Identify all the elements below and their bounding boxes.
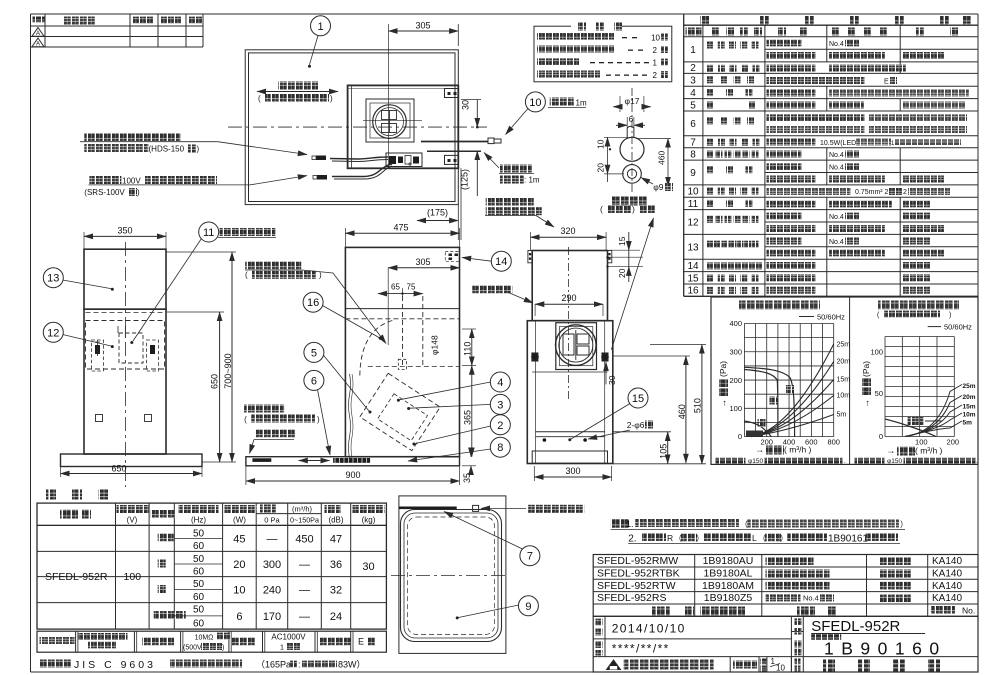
label phi9 hole <box>641 178 673 193</box>
balloon 10 power cord <box>506 92 587 135</box>
svg-text:10: 10 <box>233 585 245 597</box>
svg-text:45: 45 <box>233 533 245 545</box>
svg-text:83W）: 83W） <box>338 660 366 670</box>
svg-text:60: 60 <box>193 618 205 629</box>
svg-text:SFEDL-952RMW: SFEDL-952RMW <box>597 555 678 567</box>
svg-text:7: 7 <box>527 551 533 563</box>
svg-text:305: 305 <box>415 257 430 267</box>
motor spec strip <box>37 631 386 652</box>
svg-text:13: 13 <box>687 242 699 253</box>
svg-text:320: 320 <box>560 226 575 236</box>
line direction label 2 <box>244 405 320 425</box>
svg-text:365: 365 <box>463 410 473 425</box>
svg-text::: : <box>298 660 301 670</box>
svg-text:15: 15 <box>617 236 627 246</box>
svg-text:KA140: KA140 <box>932 569 962 580</box>
static pressure / airflow graph panel <box>711 297 978 464</box>
svg-text:1: 1 <box>771 657 776 666</box>
svg-text:12: 12 <box>687 218 699 229</box>
svg-text:2014/10/10: 2014/10/10 <box>612 622 686 636</box>
svg-text:290: 290 <box>561 293 576 303</box>
svg-text:10: 10 <box>651 34 660 43</box>
svg-text:): ) <box>317 415 320 424</box>
svg-text:3: 3 <box>497 399 503 411</box>
balloon 5 <box>304 342 372 413</box>
dim 15 right tab <box>607 232 643 257</box>
balloon 15 <box>568 388 648 441</box>
svg-text:900: 900 <box>345 470 360 480</box>
svg-text:15m: 15m <box>837 377 851 384</box>
parts list table <box>684 14 978 297</box>
corner bracket bottom-right <box>445 155 459 164</box>
svg-text:25m: 25m <box>837 342 851 349</box>
svg-text:450: 450 <box>295 533 313 545</box>
dim 65 75 <box>378 283 423 297</box>
svg-text:1: 1 <box>317 21 323 33</box>
svg-text:R: R <box>667 533 673 543</box>
dim 30 bolt <box>606 362 617 385</box>
left view base plate <box>61 454 203 467</box>
svg-text:φ17: φ17 <box>625 96 640 106</box>
svg-text:0~150Pa: 0~150Pa <box>290 515 319 524</box>
center view main rectangle <box>345 247 459 456</box>
svg-text:20: 20 <box>596 163 606 173</box>
keyhole big circle <box>620 137 644 161</box>
svg-text:200: 200 <box>947 438 960 447</box>
svg-text:(m³/h): (m³/h) <box>292 505 312 514</box>
svg-text:1: 1 <box>690 45 696 56</box>
svg-text:700~900: 700~900 <box>223 353 233 388</box>
svg-text:KA140: KA140 <box>932 556 962 567</box>
balloon 16 <box>303 292 382 340</box>
dim 20 right tab <box>606 256 643 282</box>
dim 700~900 <box>166 252 236 462</box>
svg-text:30: 30 <box>461 100 471 110</box>
logo mark label <box>250 430 297 454</box>
svg-text:(Pa): (Pa) <box>861 361 871 377</box>
svg-text:50: 50 <box>193 579 205 590</box>
svg-text:240: 240 <box>263 585 281 597</box>
svg-text:475: 475 <box>393 222 408 232</box>
svg-text:60: 60 <box>193 541 205 552</box>
svg-text:E: E <box>358 637 364 647</box>
svg-text:φ150: φ150 <box>748 458 763 465</box>
dim 110 <box>462 329 476 366</box>
svg-text:50: 50 <box>193 529 205 540</box>
base double arrow <box>299 460 330 462</box>
company logo and name <box>607 657 804 673</box>
dimension 105 <box>612 432 706 464</box>
svg-text:No.4: No.4 <box>829 239 844 246</box>
svg-text:2: 2 <box>497 420 503 432</box>
svg-text:47: 47 <box>330 533 342 545</box>
svg-text:1B9180Z5: 1B9180Z5 <box>704 592 753 604</box>
svg-text:30: 30 <box>607 375 617 385</box>
balloon 8 <box>408 437 510 461</box>
svg-text:）: ） <box>900 520 908 529</box>
svg-text:→: → <box>718 399 728 408</box>
center view inner dashed line2 <box>368 366 460 368</box>
svg-text:—: — <box>267 533 278 545</box>
svg-text:（165Pa: （165Pa <box>256 660 291 670</box>
svg-text:A: A <box>36 42 40 48</box>
bottom view centerline <box>391 574 508 576</box>
svg-text:A: A <box>36 31 40 37</box>
svg-text:SFEDL-952RS: SFEDL-952RS <box>597 592 666 604</box>
svg-text:1m: 1m <box>576 99 587 108</box>
svg-text:800: 800 <box>827 438 840 447</box>
rear view right tab <box>608 251 612 263</box>
rear view inner lines <box>532 321 607 464</box>
dim 35 <box>462 449 476 483</box>
svg-text:→: → <box>755 445 764 455</box>
svg-text:SFEDL-952R: SFEDL-952R <box>45 571 108 583</box>
svg-text:(: ( <box>245 271 248 280</box>
svg-text:650: 650 <box>209 374 219 389</box>
logo mark on base <box>252 458 271 462</box>
svg-text:φ9: φ9 <box>653 182 664 192</box>
rear view upper duct section <box>532 251 607 321</box>
svg-text:10: 10 <box>596 139 606 149</box>
drawing title cell <box>823 660 940 672</box>
svg-text:): ) <box>949 312 951 319</box>
duct dashed vertical lines phi148 <box>398 296 423 369</box>
left view duct cover <box>84 249 166 309</box>
svg-text:）: ） <box>780 534 788 543</box>
svg-text:32: 32 <box>330 585 342 597</box>
revision triangle symbol 1 <box>32 28 44 37</box>
small square holes <box>96 415 103 422</box>
svg-text:510: 510 <box>693 398 703 413</box>
svg-text:36: 36 <box>330 559 342 571</box>
svg-text:20m: 20m <box>963 394 976 401</box>
svg-text:35: 35 <box>462 473 472 483</box>
fan circle <box>363 105 422 139</box>
svg-text:2: 2 <box>653 46 658 55</box>
title block <box>593 616 978 672</box>
svg-text:—: — <box>299 559 310 571</box>
dim 320 <box>531 226 607 251</box>
svg-text:5m: 5m <box>963 420 973 427</box>
signal receiver square <box>473 505 479 511</box>
svg-text:( m³/h ): ( m³/h ) <box>784 445 812 455</box>
label haiki 2P connector <box>80 133 307 155</box>
svg-text:100: 100 <box>124 571 142 583</box>
svg-text:No.: No. <box>962 606 975 616</box>
svg-text:65: 65 <box>391 283 400 292</box>
svg-text:9: 9 <box>690 168 696 179</box>
label earth wire <box>484 153 540 185</box>
svg-text:): ) <box>197 145 200 154</box>
svg-text:3: 3 <box>690 75 696 86</box>
svg-text:(W): (W) <box>233 516 246 525</box>
svg-text:9: 9 <box>525 601 531 613</box>
dimension (175) <box>417 168 461 240</box>
svg-text:No.4: No.4 <box>803 594 819 603</box>
rear view left tab <box>528 251 532 263</box>
dim 900 <box>246 466 460 485</box>
svg-text:6: 6 <box>236 611 242 623</box>
svg-text:(Hz): (Hz) <box>191 516 206 525</box>
svg-text:10m: 10m <box>963 412 976 419</box>
svg-text:No.4: No.4 <box>829 152 844 159</box>
svg-text:100: 100 <box>729 404 742 413</box>
svg-text:50/60Hz: 50/60Hz <box>817 313 845 322</box>
svg-text:): ) <box>330 94 333 103</box>
svg-text:10: 10 <box>529 97 541 109</box>
right bolt tab <box>602 353 609 362</box>
svg-text:SFEDL-952R: SFEDL-952R <box>811 618 900 635</box>
svg-text:50: 50 <box>193 605 205 616</box>
svg-text:200: 200 <box>729 376 742 385</box>
accessories (fuzokuhin) box <box>534 21 672 82</box>
left bracket dashed <box>92 340 104 371</box>
rear fan mount square <box>556 323 597 370</box>
svg-text:(kg): (kg) <box>362 516 376 525</box>
rear fan circle <box>556 325 597 366</box>
svg-text:20m: 20m <box>837 359 851 366</box>
svg-text:2-φ6: 2-φ6 <box>627 420 645 430</box>
svg-text:5: 5 <box>311 347 317 359</box>
svg-text:1B9180AL: 1B9180AL <box>703 568 752 580</box>
svg-text:2: 2 <box>653 71 658 80</box>
svg-text:350: 350 <box>117 226 132 236</box>
dimension 510 <box>650 345 706 465</box>
svg-text:（: （ <box>740 520 748 529</box>
left view slide duct dashed <box>86 313 165 370</box>
fan mounting plate <box>366 99 414 142</box>
balloon 2 <box>412 415 510 446</box>
characteristics header texts <box>60 505 385 525</box>
characteristics table title <box>46 490 108 500</box>
svg-text:（: （ <box>674 534 682 543</box>
svg-text:(V): (V) <box>127 516 138 525</box>
svg-text:50: 50 <box>875 389 883 398</box>
svg-text:25m: 25m <box>963 383 976 390</box>
svg-text:12: 12 <box>47 327 59 339</box>
dimension (125) <box>460 151 478 196</box>
dim 6 slot <box>616 114 645 128</box>
svg-text:1B9180AM: 1B9180AM <box>702 580 754 592</box>
right graph: constant ventilation enlarged <box>855 301 979 466</box>
svg-text:): ) <box>632 204 635 214</box>
svg-text:460: 460 <box>677 404 687 419</box>
balloon 9 <box>456 596 539 620</box>
svg-text:(HDS-150: (HDS-150 <box>149 145 185 154</box>
svg-text:8: 8 <box>690 150 696 161</box>
rear exhaust case label <box>245 262 386 344</box>
corner bracket top-right <box>445 89 459 98</box>
center view inner dashed ceiling <box>345 318 459 320</box>
daruma hole detail title <box>600 197 655 215</box>
left view body <box>84 309 166 454</box>
angled fan unit dashed <box>360 373 440 450</box>
svg-text:10.5W(LED: 10.5W(LED <box>820 140 856 147</box>
svg-text:105: 105 <box>659 444 669 459</box>
supply connector wire (kyuki 3P) <box>313 164 392 180</box>
svg-text:2: 2 <box>903 189 907 196</box>
svg-text:50: 50 <box>193 554 205 565</box>
balloon 7 <box>444 512 540 566</box>
dim 305 center view <box>388 257 459 345</box>
svg-text:15: 15 <box>687 273 699 284</box>
phi9 hole circle <box>623 165 642 184</box>
svg-text:φ150: φ150 <box>887 458 902 465</box>
svg-text:1: 1 <box>280 643 284 652</box>
svg-text:400: 400 <box>729 319 742 328</box>
dimension 460 <box>612 356 690 463</box>
drawing number cell <box>795 639 947 659</box>
dim 650 bottom <box>61 464 203 478</box>
earth wire <box>427 150 481 152</box>
svg-text:—: — <box>299 585 310 597</box>
svg-text:10MΩ: 10MΩ <box>195 635 214 642</box>
flow note <box>40 659 366 671</box>
svg-text:170: 170 <box>263 611 281 623</box>
dimension 30 top-right <box>461 100 482 129</box>
revision triangle symbol 2 <box>32 38 44 47</box>
svg-text:6: 6 <box>311 375 317 387</box>
svg-text:0: 0 <box>738 432 742 441</box>
svg-text:(500V: (500V <box>183 645 202 652</box>
dimension 305 top <box>389 21 459 169</box>
svg-text:16: 16 <box>307 297 319 309</box>
svg-text:0.75mm² 2: 0.75mm² 2 <box>855 189 889 196</box>
svg-text:20: 20 <box>233 559 245 571</box>
dim 300 <box>534 466 611 481</box>
svg-text:16: 16 <box>687 286 699 297</box>
svg-text:0 Pa: 0 Pa <box>264 515 280 524</box>
svg-text:(: ( <box>258 94 261 103</box>
svg-text:300: 300 <box>263 559 281 571</box>
label signal receiver <box>481 505 584 513</box>
note line 1 <box>611 519 908 530</box>
svg-text:13: 13 <box>47 273 59 285</box>
left bolt tab <box>531 353 538 362</box>
svg-text:8: 8 <box>497 442 503 454</box>
svg-text:11: 11 <box>688 199 699 210</box>
svg-text:10: 10 <box>687 187 699 198</box>
svg-text:1.: 1. <box>626 519 634 529</box>
svg-text:JIS C 9603: JIS C 9603 <box>74 659 156 671</box>
svg-text:15: 15 <box>632 393 644 405</box>
dim 365 <box>463 366 473 457</box>
svg-text:100V: 100V <box>122 177 141 186</box>
balloon 3 <box>407 394 510 414</box>
label duct cover hanger holes <box>485 198 554 227</box>
mounting rail bottom <box>532 432 607 463</box>
model name cell <box>795 618 926 640</box>
svg-text:2: 2 <box>690 63 696 74</box>
dim 460 keyhole <box>636 139 671 187</box>
keyhole slot <box>627 126 634 137</box>
svg-text:1B90160: 1B90160 <box>824 639 947 659</box>
svg-text:11: 11 <box>203 227 214 239</box>
switch strip on base <box>333 458 370 463</box>
svg-text:L: L <box>752 533 757 543</box>
left view center line <box>124 242 126 487</box>
svg-text:→: → <box>886 446 895 456</box>
svg-text:305: 305 <box>415 21 430 31</box>
svg-text:—: — <box>299 611 310 623</box>
balloon 1 <box>308 16 331 68</box>
svg-text:10: 10 <box>776 664 785 673</box>
rear center dashed line <box>567 247 569 400</box>
revision history table <box>31 14 204 47</box>
label body mounting holes <box>472 286 533 304</box>
svg-text:24: 24 <box>330 611 342 623</box>
svg-text:5: 5 <box>690 100 696 111</box>
slide duct edge (thick) <box>399 507 457 510</box>
sheet frame <box>31 13 979 15</box>
svg-text:KA140: KA140 <box>932 593 962 604</box>
svg-text:: 1m: : 1m <box>524 176 540 185</box>
left view duct adapter dashed square <box>118 326 143 363</box>
svg-text:4: 4 <box>497 377 503 389</box>
top view hood body <box>348 85 459 168</box>
svg-text:5m: 5m <box>837 412 847 419</box>
dim 10 20 keyhole <box>596 137 629 182</box>
svg-text:): ) <box>222 645 224 652</box>
balloon 13 <box>43 268 114 291</box>
svg-text:No.4: No.4 <box>829 165 844 172</box>
koushin date <box>596 641 670 657</box>
balloon 11 upper exhaust label <box>130 222 276 344</box>
svg-text:15m: 15m <box>963 404 976 411</box>
wavy break line <box>349 374 351 459</box>
top view center line <box>228 126 487 128</box>
svg-text:KA140: KA140 <box>932 581 962 592</box>
dim 290 <box>535 293 603 316</box>
svg-text:(Pa): (Pa) <box>718 361 728 377</box>
balloon 4 <box>397 372 510 402</box>
bottom view outer rect <box>399 496 506 654</box>
svg-text:): ) <box>137 188 140 197</box>
balloon 14 <box>462 251 511 271</box>
svg-text:(SRS-100V: (SRS-100V <box>84 188 125 197</box>
bottom view rounded panels <box>401 510 502 642</box>
svg-text:300: 300 <box>565 466 580 476</box>
exhaust connector wire (haiki 2P) <box>312 156 388 162</box>
center view base strip <box>246 457 460 466</box>
dashed swing arc <box>360 321 393 378</box>
svg-text:）: ） <box>696 534 704 543</box>
svg-text:(: ( <box>600 204 603 214</box>
svg-text:50/60Hz: 50/60Hz <box>944 323 972 332</box>
svg-text:4: 4 <box>690 88 696 99</box>
svg-text:100: 100 <box>870 348 883 357</box>
svg-text:20: 20 <box>617 268 627 278</box>
svg-text:1B9180AU: 1B9180AU <box>703 555 754 567</box>
svg-text:No.4: No.4 <box>829 41 844 48</box>
svg-text:75: 75 <box>407 283 416 292</box>
line direction arrow label <box>257 82 338 104</box>
svg-text:1: 1 <box>653 59 658 68</box>
svg-text:SFEDL-952RTBK: SFEDL-952RTBK <box>597 568 680 580</box>
svg-text:( m³/h ): ( m³/h ) <box>915 446 943 456</box>
svg-text:1B90161: 1B90161 <box>828 534 868 545</box>
svg-text:10m: 10m <box>837 393 851 400</box>
keyhole slots dashed top right <box>445 252 459 262</box>
dim 350 <box>84 226 166 250</box>
balloon 6 <box>304 370 330 455</box>
top view outer wall rectangle <box>245 50 458 205</box>
svg-text:650: 650 <box>111 464 126 474</box>
svg-text:（: （ <box>758 534 766 543</box>
svg-text:φ148: φ148 <box>430 335 440 355</box>
svg-text:60: 60 <box>193 592 205 603</box>
label 2-phi6 holes <box>588 420 653 439</box>
